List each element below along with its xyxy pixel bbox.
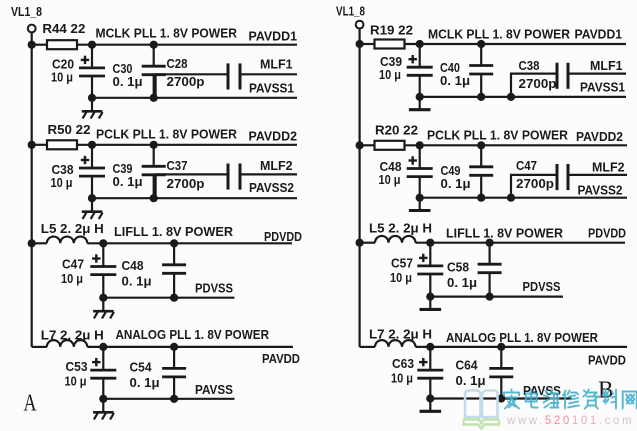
svg-text:0. 1μ: 0. 1μ (447, 275, 477, 290)
svg-text:PAVDD1: PAVDD1 (249, 28, 298, 43)
svg-text:PAVDD: PAVDD (262, 351, 300, 366)
svg-text:PDVDD: PDVDD (264, 229, 302, 244)
svg-text:C63: C63 (392, 356, 414, 371)
svg-text:LIFLL 1. 8V POWER: LIFLL 1. 8V POWER (446, 226, 564, 241)
svg-text:L5 2. 2μ H: L5 2. 2μ H (41, 221, 104, 236)
svg-text:PAVDD2: PAVDD2 (576, 129, 623, 144)
svg-text:C58: C58 (447, 260, 469, 275)
svg-text:0. 1μ: 0. 1μ (122, 274, 152, 289)
svg-text:10 μ: 10 μ (390, 270, 412, 285)
svg-text:0. 1μ: 0. 1μ (130, 375, 160, 390)
svg-text:ANALOG PLL 1. 8V POWER: ANALOG PLL 1. 8V POWER (446, 330, 599, 345)
svg-text:PAVSS1: PAVSS1 (580, 80, 625, 95)
svg-text:0. 1μ: 0. 1μ (441, 176, 471, 191)
svg-text:PAVDD2: PAVDD2 (249, 129, 298, 144)
svg-text:10 μ: 10 μ (379, 172, 401, 187)
svg-text:PAVSS2: PAVSS2 (249, 180, 294, 195)
svg-text:C37: C37 (167, 158, 188, 173)
svg-text:VL1_8: VL1_8 (11, 4, 42, 19)
svg-text:MCLK PLL 1. 8V POWER: MCLK PLL 1. 8V POWER (428, 27, 571, 42)
svg-text:LIFLL 1. 8V POWER: LIFLL 1. 8V POWER (114, 224, 234, 239)
svg-text:10 μ: 10 μ (379, 67, 401, 82)
svg-text:C28: C28 (167, 56, 188, 71)
svg-text:R19 22: R19 22 (370, 22, 413, 37)
svg-text:2700p: 2700p (167, 74, 205, 89)
svg-text:PDVSS: PDVSS (523, 279, 561, 294)
svg-text:2700p: 2700p (516, 176, 554, 191)
svg-text:0. 1μ: 0. 1μ (456, 373, 486, 388)
svg-text:www.520101.com: www.520101.com (506, 415, 634, 427)
svg-text:2700p: 2700p (167, 176, 205, 191)
svg-text:0. 1μ: 0. 1μ (113, 174, 143, 189)
svg-text:MCLK PLL 1. 8V POWER: MCLK PLL 1. 8V POWER (96, 26, 238, 41)
svg-text:C48: C48 (122, 258, 144, 273)
svg-text:10 μ: 10 μ (391, 371, 413, 386)
svg-text:R50 22: R50 22 (48, 122, 91, 137)
svg-text:L5 2. 2μ H: L5 2. 2μ H (369, 221, 432, 236)
svg-text:R44 22: R44 22 (42, 21, 85, 36)
svg-text:MLF1: MLF1 (260, 57, 293, 72)
svg-text:PAVSS: PAVSS (195, 382, 233, 397)
svg-text:PDVSS: PDVSS (195, 281, 233, 296)
svg-text:2700p: 2700p (519, 76, 557, 91)
svg-text:ANALOG PLL 1. 8V POWER: ANALOG PLL 1. 8V POWER (116, 327, 270, 342)
svg-text:PAVSS1: PAVSS1 (249, 81, 294, 96)
svg-text:C47: C47 (516, 158, 537, 173)
svg-text:C54: C54 (130, 360, 153, 375)
svg-text:PDVDD: PDVDD (588, 226, 626, 241)
svg-text:PAVDD1: PAVDD1 (575, 27, 623, 42)
svg-text:10 μ: 10 μ (51, 70, 73, 85)
svg-text:10 μ: 10 μ (65, 374, 87, 389)
svg-text:PAVSS2: PAVSS2 (578, 183, 623, 198)
svg-text:A: A (24, 390, 37, 416)
svg-text:MLF2: MLF2 (260, 158, 293, 173)
svg-text:MLF2: MLF2 (592, 160, 625, 175)
svg-text:PAVDD: PAVDD (588, 353, 626, 368)
svg-text:PCLK PLL 1. 8V POWER: PCLK PLL 1. 8V POWER (427, 127, 569, 142)
svg-text:L7 2. 2μ H: L7 2. 2μ H (369, 327, 432, 342)
svg-text:10 μ: 10 μ (51, 175, 73, 190)
svg-text:0. 1μ: 0. 1μ (113, 74, 143, 89)
svg-text:C53: C53 (66, 359, 88, 374)
svg-text:C57: C57 (391, 256, 413, 271)
svg-text:MLF1: MLF1 (590, 58, 623, 73)
svg-text:C64: C64 (456, 358, 479, 373)
svg-text:R20 22: R20 22 (375, 123, 418, 138)
svg-text:L7 2. 2μ H: L7 2. 2μ H (41, 328, 104, 343)
svg-text:PCLK PLL 1. 8V POWER: PCLK PLL 1. 8V POWER (96, 126, 238, 141)
svg-text:PAVSS: PAVSS (523, 383, 561, 398)
svg-text:VL1_8: VL1_8 (336, 4, 365, 19)
svg-text:C47: C47 (62, 257, 84, 272)
svg-text:C38: C38 (519, 58, 540, 73)
svg-text:10 μ: 10 μ (61, 271, 83, 286)
svg-text:0. 1μ: 0. 1μ (440, 73, 470, 88)
